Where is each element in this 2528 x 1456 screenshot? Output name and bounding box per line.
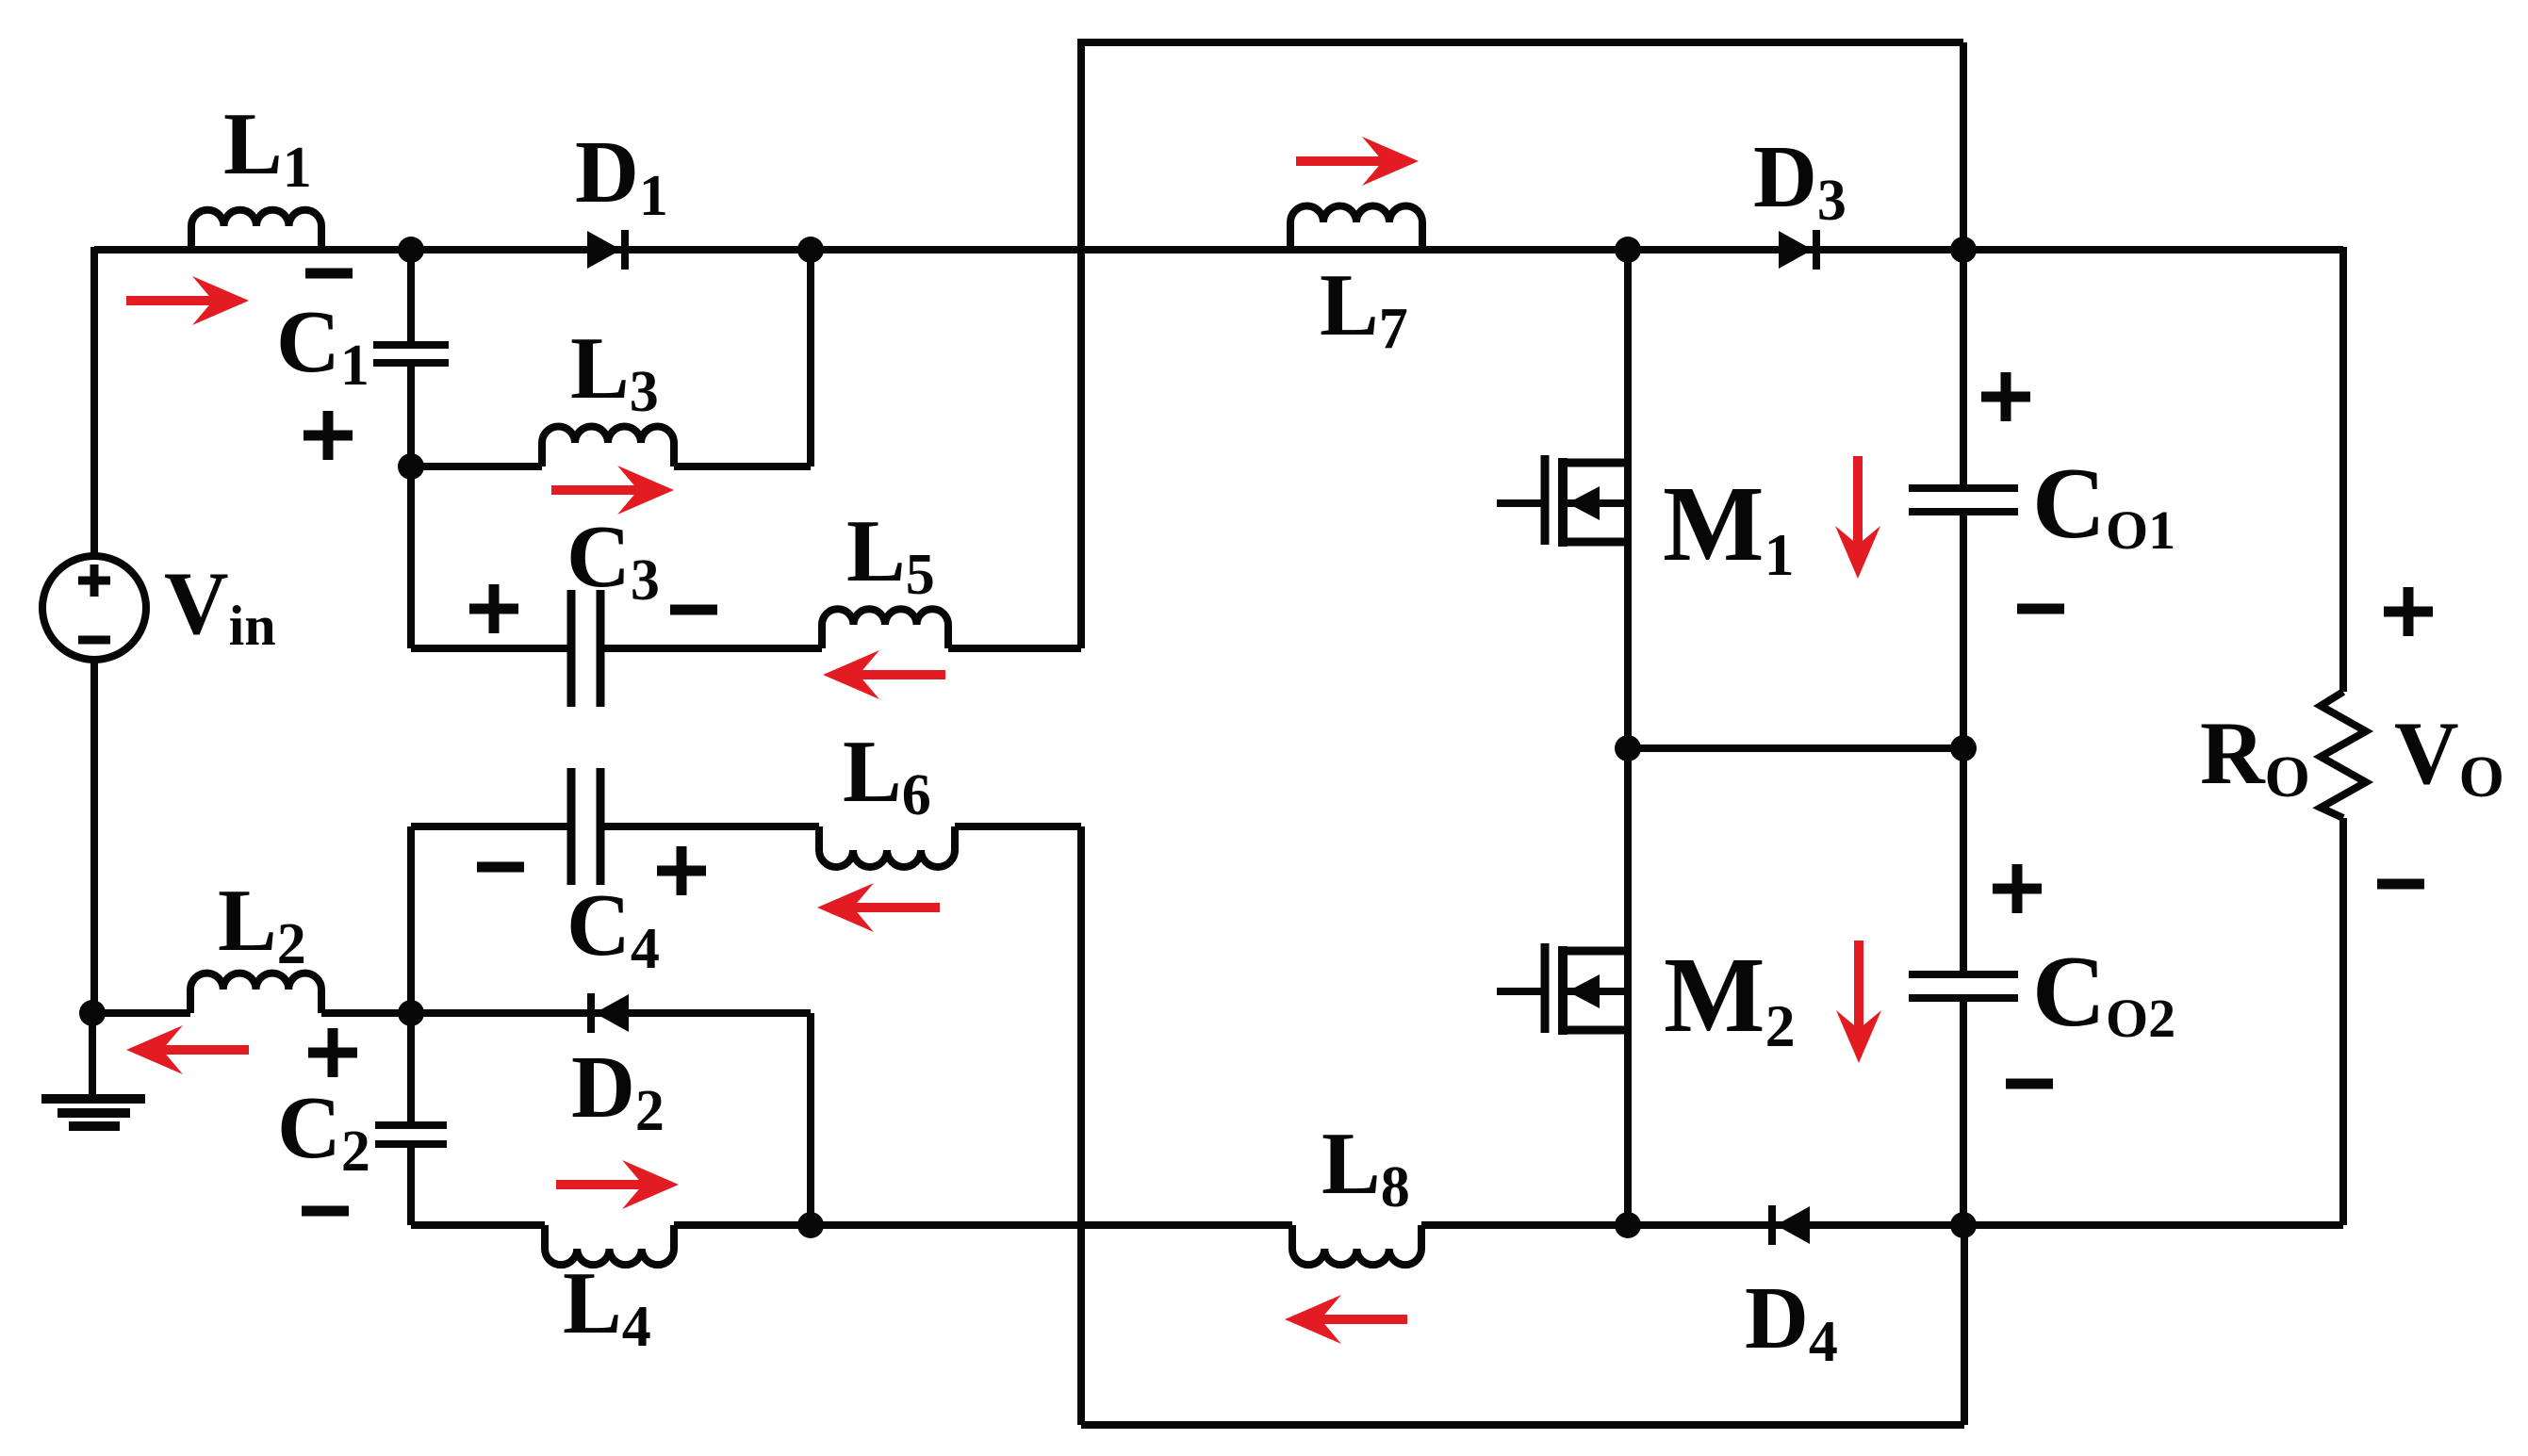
node L2 / C2 / D2 bbox=[398, 1000, 424, 1026]
wire center riser up to top box bbox=[1077, 42, 1085, 648]
CO1 minus sign bbox=[2017, 604, 2064, 614]
current arrow L3 (right) bbox=[551, 485, 646, 495]
inductor L2 bbox=[92, 1009, 190, 1017]
current arrow L7 (right) bbox=[1296, 156, 1390, 166]
current arrow L6 (left) bbox=[845, 903, 940, 912]
diode D4 bbox=[1628, 1221, 1963, 1229]
inductor L1 bbox=[191, 210, 321, 250]
wire bottom rail to L8 bbox=[811, 1221, 1292, 1229]
VO minus sign bbox=[2377, 879, 2424, 890]
wire top box right drop bbox=[1960, 42, 1967, 250]
current arrow CO2 (down) bbox=[1854, 941, 1863, 1037]
wire bottom box horizontal bbox=[1081, 1421, 1964, 1429]
wire L5 to center riser bbox=[948, 645, 1081, 652]
node main/CO1 top bbox=[1950, 237, 1977, 263]
wire C3 row left bbox=[411, 645, 571, 652]
wire C3 to L5 bbox=[600, 645, 822, 652]
wire bottom box right riser bbox=[1961, 1225, 1968, 1425]
wire D2 corner down bbox=[807, 1013, 814, 1225]
wire C4 to L6 bbox=[600, 823, 819, 830]
capacitor CO2 bbox=[1960, 748, 1967, 974]
voltage source Vin bbox=[42, 556, 146, 660]
current arrow L4 (right) bbox=[556, 1180, 650, 1189]
resistor RO bbox=[2339, 247, 2347, 692]
capacitor CO1 bbox=[1960, 250, 1967, 488]
node M2 source / D4 anode bbox=[1615, 1212, 1641, 1238]
MOSFET M2 bbox=[1624, 748, 1632, 1225]
node mid rail left bbox=[1615, 735, 1641, 761]
wire L8 to M2 source node bbox=[1421, 1221, 1628, 1229]
ground bbox=[89, 1013, 96, 1097]
CO2 minus sign bbox=[2006, 1079, 2053, 1089]
inductor L5 bbox=[822, 609, 948, 648]
C2 minus sign bbox=[302, 1206, 349, 1217]
current arrow L8 (left) bbox=[1313, 1315, 1407, 1324]
node L4 / D2 / bottom rail bbox=[797, 1212, 824, 1238]
node Vin-minus / ground / L2 bbox=[79, 1000, 106, 1026]
node D1 cathode / L3 right riser bbox=[797, 237, 824, 263]
C4 minus sign bbox=[477, 862, 524, 873]
CO2 plus sign bbox=[1993, 884, 2042, 894]
wire right center riser down bbox=[1077, 826, 1085, 1425]
inductor L7 bbox=[1290, 206, 1422, 251]
current arrow CO1 (down) bbox=[1853, 456, 1863, 552]
node A (C1 top) bbox=[398, 237, 424, 263]
wire L3 right riser up to main rail bbox=[807, 250, 814, 466]
C3 plus sign bbox=[469, 604, 518, 614]
capacitor C4 bbox=[567, 768, 576, 885]
wire L6 to right riser bbox=[955, 823, 1081, 830]
wire mid rail bbox=[1628, 744, 1963, 752]
C1 minus sign bbox=[305, 269, 353, 279]
node mid rail right bbox=[1950, 735, 1977, 761]
wire left input column bbox=[90, 247, 98, 557]
node bottom right / CO2 bottom bbox=[1950, 1212, 1977, 1238]
C1 plus sign bbox=[304, 431, 353, 441]
node M1 drain bbox=[1615, 237, 1641, 263]
diode D2 bbox=[411, 1009, 811, 1017]
current arrow L1 (right) bbox=[126, 296, 221, 305]
current arrow L5 (left) bbox=[851, 670, 945, 679]
current arrow L2 (left) bbox=[155, 1045, 249, 1055]
capacitor C3 bbox=[567, 590, 576, 707]
C2 plus sign bbox=[308, 1048, 357, 1058]
inductor L3 bbox=[411, 463, 542, 470]
inductor L4 bbox=[411, 1221, 545, 1229]
C4 plus sign bbox=[657, 866, 706, 876]
CO1 plus sign bbox=[1981, 392, 2030, 402]
wire top box horizontal bbox=[1077, 39, 1963, 46]
inductor L6 bbox=[819, 826, 955, 867]
VO plus sign bbox=[2384, 607, 2433, 617]
wire C4 row left bbox=[411, 823, 571, 830]
diode D1 bbox=[587, 231, 621, 269]
inductor L8 bbox=[1292, 1225, 1421, 1265]
wire main top rail bbox=[94, 246, 2343, 254]
wire node B down to C3 row bbox=[407, 466, 415, 648]
MOSFET M1 bbox=[1624, 250, 1632, 748]
wire bottom rail to RO bbox=[1963, 1221, 2343, 1229]
C3 minus sign bbox=[670, 605, 717, 615]
diode D3 bbox=[1779, 231, 1813, 269]
capacitor C2 bbox=[407, 1013, 415, 1125]
wire below Vin bbox=[90, 659, 98, 1013]
capacitor C1 bbox=[407, 250, 415, 345]
wire C4 left riser bbox=[407, 826, 415, 1013]
node B (C1 bottom / L3) bbox=[398, 453, 424, 480]
